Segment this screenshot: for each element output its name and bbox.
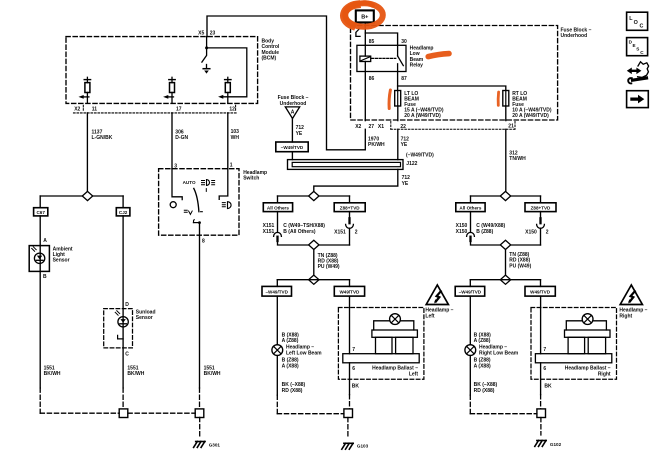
connector X2 dotted row under BCM xyxy=(74,112,238,114)
wire -W49/TVD box to J122 xyxy=(291,152,293,160)
option box All Others (left col) xyxy=(263,203,292,212)
bulb labels below xyxy=(474,358,491,370)
svg-text:Z88+TVD: Z88+TVD xyxy=(340,205,360,210)
svg-text:O: O xyxy=(634,20,638,26)
svg-text:A: A xyxy=(291,109,295,115)
Body Control Module (BCM) dashed box xyxy=(66,37,258,104)
svg-text:23: 23 xyxy=(210,31,216,37)
svg-text:30: 30 xyxy=(401,39,407,45)
wire relay 87 to both low beam fuses xyxy=(398,72,506,91)
option box Z88+TVD (right col) xyxy=(525,203,556,212)
svg-text:–W49/TVD: –W49/TVD xyxy=(281,145,304,150)
svg-text:C: C xyxy=(640,50,644,55)
wire C67 down through ambient light sensor xyxy=(39,216,41,388)
ballast top bar (left) xyxy=(372,330,418,337)
option box W49/TVD (right ballast) xyxy=(525,286,555,296)
switch headlamp position icon xyxy=(222,202,231,209)
svg-text:6: 6 xyxy=(543,366,546,372)
headlamp ballast right dashed box xyxy=(531,308,617,380)
ground G103 xyxy=(342,443,353,449)
wire ballast 6 to ground BK (left) xyxy=(349,363,351,395)
svg-text:J122: J122 xyxy=(406,161,417,167)
svg-text:17: 17 xyxy=(176,107,182,113)
wire labels TN RD PU (left col) xyxy=(318,253,340,270)
svg-text:1: 1 xyxy=(230,162,233,168)
left headlamp splice diamond (bottom) xyxy=(309,275,319,284)
in-line connector square (switch gnd) xyxy=(195,409,204,418)
svg-text:–W49/TVD: –W49/TVD xyxy=(459,289,482,294)
ballast legs (right) xyxy=(568,337,585,353)
svg-text:Sensor: Sensor xyxy=(53,258,70,264)
connector X1 dotted bracket xyxy=(391,122,515,130)
option box All Others (right col) xyxy=(456,203,485,212)
wire to left low beam bulb xyxy=(276,296,278,345)
splice diamond on 1137 circuit xyxy=(40,195,123,197)
svg-text:86: 86 xyxy=(369,76,375,82)
BCM internal route to pin-12 driver xyxy=(207,48,247,97)
svg-text:Left Low Beam: Left Low Beam xyxy=(286,350,322,356)
wire 1970 PK/WH relay coil 86 to BCM X5/23 top route xyxy=(207,16,365,150)
node X5 pin 23 labels xyxy=(198,31,215,37)
wire 712 YE J122 output to left headlamp diamond xyxy=(314,169,398,191)
option box W49/TVD (left ballast) xyxy=(334,286,364,296)
wire bulb to ground label BK xyxy=(276,356,278,396)
svg-text:L-GN/BK: L-GN/BK xyxy=(92,135,113,141)
ballast legs (left) xyxy=(376,337,393,353)
in-line connector X150 (right wire) xyxy=(540,212,542,219)
svg-text:G102: G102 xyxy=(550,442,562,447)
bulb label xyxy=(479,345,519,357)
in-line connector square (sunload gnd) xyxy=(119,409,128,418)
wire 103 WH from BCM pin 12 to switch pin 1 xyxy=(227,113,229,169)
svg-text:2: 2 xyxy=(546,229,549,235)
svg-text:A (X88): A (X88) xyxy=(474,363,491,369)
sunload sensor photocell symbol xyxy=(118,317,128,327)
ballast top bar (right) xyxy=(565,330,611,337)
wire 306 D-GN from BCM pin 17 to switch pin 3 xyxy=(171,113,173,169)
fuse RT LO BEAM labels xyxy=(512,91,552,119)
bulb labels above xyxy=(282,333,300,345)
svg-text:S: S xyxy=(636,47,639,52)
relay pin labels 85 30 86 87 xyxy=(369,39,407,82)
wire B+ feed into fuse block xyxy=(364,22,366,45)
svg-text:85: 85 xyxy=(369,39,375,45)
BCM internal switch to ground xyxy=(202,37,210,69)
icon box DESC xyxy=(627,38,648,56)
svg-text:YE: YE xyxy=(402,181,409,187)
sunload sensor dashed box xyxy=(104,309,133,348)
dashed wire bulb ground to G103 xyxy=(277,395,344,414)
svg-text:D-GN: D-GN xyxy=(175,135,188,141)
svg-text:X150: X150 xyxy=(525,229,537,235)
svg-text:7: 7 xyxy=(352,347,355,353)
left headlamp splice diamond (top) xyxy=(278,195,350,197)
svg-text:X2: X2 xyxy=(355,124,361,130)
relay contact xyxy=(398,45,404,71)
in-line connector X150 (left wire) xyxy=(470,212,472,233)
in-line connector square (left headlamp gnd) xyxy=(344,409,353,418)
svg-text:BK: BK xyxy=(544,384,552,390)
svg-text:Left: Left xyxy=(425,313,435,319)
svg-text:8: 8 xyxy=(202,238,205,244)
svg-text:B: B xyxy=(43,274,47,280)
svg-text:All Others: All Others xyxy=(459,205,481,210)
svg-text:7: 7 xyxy=(543,347,546,353)
power feed triangle A xyxy=(285,107,299,119)
svg-text:27: 27 xyxy=(369,124,375,130)
svg-text:(BCM): (BCM) xyxy=(262,55,277,61)
switch pin 1 contact post xyxy=(219,169,228,200)
warning triangle (left headlamp) xyxy=(426,285,448,305)
relay coil-contact dashed link xyxy=(372,57,396,59)
icon diagnostic arrows and wrench xyxy=(638,62,649,78)
svg-text:WH: WH xyxy=(231,135,240,141)
icon box LOC xyxy=(627,12,648,30)
switch lever xyxy=(194,188,199,211)
svg-text:C: C xyxy=(125,352,129,358)
svg-text:PU (W49): PU (W49) xyxy=(509,263,531,269)
svg-text:PK/WH: PK/WH xyxy=(368,142,385,148)
svg-text:D: D xyxy=(125,302,129,308)
svg-text:YE: YE xyxy=(296,131,303,137)
svg-text:Relay: Relay xyxy=(410,62,424,68)
svg-text:C: C xyxy=(640,24,644,30)
svg-text:–W49/TVD: –W49/TVD xyxy=(265,289,288,294)
in-line connector X151 (left wire) xyxy=(277,212,279,233)
headlamp switch label xyxy=(243,170,267,182)
orange highlighter mark on RT LO BEAM fuse xyxy=(497,92,500,105)
BCM output driver pin 12 xyxy=(225,77,231,103)
ambient light sensor box xyxy=(29,246,49,272)
switch park-lamp icon xyxy=(184,210,192,214)
svg-text:20 A (W49/TVD): 20 A (W49/TVD) xyxy=(404,113,441,119)
svg-text:CJ2: CJ2 xyxy=(119,210,128,215)
ballast igniter bulb (right) xyxy=(582,314,593,325)
BCM label xyxy=(262,39,280,62)
wire 712 YE fuse X1/22 down to J122 xyxy=(397,106,399,160)
ambient light sensor label xyxy=(53,246,73,263)
wire label 1551 BK/WH (middle) xyxy=(127,365,144,377)
bulb labels above xyxy=(474,333,492,345)
wire ballast 6 to ground BK (right) xyxy=(540,363,542,395)
svg-text:12: 12 xyxy=(229,107,235,113)
sunload sensor label xyxy=(136,310,156,322)
ballast bulb leads (left) xyxy=(374,321,414,330)
connector CJ2 xyxy=(116,208,130,216)
svg-text:Underhood: Underhood xyxy=(561,33,588,39)
svg-text:X1: X1 xyxy=(378,124,384,130)
svg-text:AUTO: AUTO xyxy=(183,180,196,185)
svg-text:B (All Others): B (All Others) xyxy=(283,229,316,235)
switch AUTO position contact circle xyxy=(170,202,176,208)
bulb Right Low Beam xyxy=(465,345,476,356)
right headlamp splice diamond (top) xyxy=(471,195,541,197)
wire labels TN RD PU (right col) xyxy=(509,252,531,269)
svg-text:A (X88): A (X88) xyxy=(282,363,299,369)
svg-text:B+: B+ xyxy=(361,15,368,21)
svg-text:PU (W49): PU (W49) xyxy=(318,264,340,270)
orange highlighter circle around B+ xyxy=(345,3,383,27)
svg-text:B (Z88): B (Z88) xyxy=(476,229,493,235)
svg-text:X2: X2 xyxy=(74,107,80,113)
switch pin 3 contact post xyxy=(172,169,182,200)
battery node B+ xyxy=(356,10,374,22)
option box -W49/TVD (left bulb) xyxy=(262,286,292,296)
ballast bulb leads (right) xyxy=(566,321,606,330)
wire 1137 L-GN/BK from BCM pin 11 xyxy=(86,113,88,192)
wire to right low beam bulb xyxy=(469,296,471,345)
orange highlighter swoosh on relay label xyxy=(428,54,449,57)
connector labels X151 row xyxy=(263,223,358,235)
wire W49/TVD into left ballast xyxy=(349,296,351,354)
relay Headlamp Low Beam Relay box xyxy=(357,45,406,71)
fuse block underhood label (left feed) xyxy=(278,95,309,107)
svg-text:2: 2 xyxy=(355,229,358,235)
fuse LT LO BEAM labels xyxy=(404,91,444,119)
svg-text:X151: X151 xyxy=(334,229,346,235)
right headlamp splice diamond (mid) xyxy=(500,240,510,249)
svg-text:W49/TVD: W49/TVD xyxy=(339,289,360,294)
fuse block underhood dashed box xyxy=(351,26,558,121)
svg-text:A (Z88): A (Z88) xyxy=(474,338,491,344)
svg-text:A: A xyxy=(43,238,47,244)
svg-text:C67: C67 xyxy=(36,210,45,215)
svg-text:G301: G301 xyxy=(209,442,221,447)
wire 312 TN/WH fuse 21 down to right diamond xyxy=(505,106,507,192)
fuse LT LO BEAM xyxy=(395,91,401,107)
ground G301 xyxy=(194,442,205,448)
ballast igniter bulb (left) xyxy=(390,314,401,325)
switch output pivot xyxy=(193,222,199,224)
sunload sensor internal contact tick xyxy=(118,335,124,339)
svg-text:X150: X150 xyxy=(456,229,468,235)
orange highlighter mark on LT LO BEAM fuse xyxy=(389,90,390,109)
headlamp ballast left dashed box xyxy=(338,308,424,380)
warning triangle (right headlamp) xyxy=(620,285,642,305)
wire drops to C67 and CJ2 xyxy=(40,196,123,208)
relay label xyxy=(410,46,434,69)
icon box forward arrow xyxy=(627,91,649,108)
wire 712 YE triangle to -W49/TVD box xyxy=(291,119,293,143)
svg-text:BK: BK xyxy=(352,384,360,390)
wire CJ2 down through sunload sensor xyxy=(122,216,124,388)
svg-text:BK/WH: BK/WH xyxy=(127,371,144,377)
left headlamp splice diamond (mid) xyxy=(309,240,319,249)
connector labels X150 row xyxy=(456,223,549,235)
svg-text:Switch: Switch xyxy=(243,175,259,181)
X2 pin labels 11 17 12 xyxy=(74,107,235,113)
connector X1 pin 22 labels xyxy=(378,124,514,131)
ballast base bar (left) xyxy=(343,354,419,363)
svg-text:87: 87 xyxy=(401,76,407,82)
svg-text:G103: G103 xyxy=(357,444,369,449)
svg-text:RD (X88): RD (X88) xyxy=(474,388,495,394)
svg-text:11: 11 xyxy=(92,107,98,113)
wire switch pin 8 output xyxy=(199,223,201,388)
connector X2 pin 27 labels xyxy=(355,124,374,130)
svg-text:YE: YE xyxy=(401,142,408,148)
dashed wire bulb ground to G102 xyxy=(470,395,537,414)
ground G102 xyxy=(535,441,546,447)
ballast base bar (right) xyxy=(535,354,611,363)
fuse block underhood label (right) xyxy=(561,27,592,39)
wire label 1970 PK/WH xyxy=(368,136,385,148)
svg-text:All Others: All Others xyxy=(267,205,289,210)
svg-text:RD (X88): RD (X88) xyxy=(282,388,303,394)
svg-text:Right Low Beam: Right Low Beam xyxy=(479,350,519,356)
wire label 1551 BK/WH (left) xyxy=(44,365,61,377)
option box Z88+TVD (left col) xyxy=(334,203,365,212)
option box -W49/TVD (right bulb) xyxy=(455,286,485,296)
ballast label (right) xyxy=(565,366,611,378)
svg-text:(–W49/TVD): (–W49/TVD) xyxy=(406,152,434,158)
wire W49/TVD into right ballast xyxy=(540,296,542,354)
bulb label xyxy=(286,345,322,357)
splice pack J122 outer box xyxy=(288,160,404,170)
svg-text:20 A (W49/TVD): 20 A (W49/TVD) xyxy=(512,113,549,119)
svg-text:Right: Right xyxy=(619,313,632,319)
svg-text:W49/TVD: W49/TVD xyxy=(530,289,551,294)
fuse RT LO BEAM xyxy=(503,91,509,107)
option box -W49/TVD (left feed) xyxy=(276,142,308,152)
wire bulb to ground label BK xyxy=(469,356,471,396)
svg-text:X151: X151 xyxy=(263,229,275,235)
splice pack J122 inner bar xyxy=(292,162,400,166)
connector C67 xyxy=(34,208,48,216)
svg-text:E: E xyxy=(633,43,636,48)
BCM output driver pin 11 xyxy=(83,77,91,103)
svg-text:Underhood: Underhood xyxy=(280,101,307,107)
ballast label (left) xyxy=(372,366,418,378)
svg-text:BK/WH: BK/WH xyxy=(204,371,221,377)
relay coil xyxy=(364,45,366,56)
bulb labels below xyxy=(282,358,299,370)
in-line connector square (right headlamp gnd) xyxy=(537,409,546,418)
svg-text:Sensor: Sensor xyxy=(136,315,153,321)
svg-text:6: 6 xyxy=(352,366,355,372)
svg-text:Left: Left xyxy=(409,371,419,377)
headlamp switch dashed box xyxy=(159,169,239,236)
svg-text:A (Z88): A (Z88) xyxy=(282,338,299,344)
BCM output driver pin 17 xyxy=(167,77,175,103)
dashed ground wires to G301 xyxy=(40,388,200,437)
wire branch B+ to relay pin 30 xyxy=(365,33,397,45)
svg-text:TN/WH: TN/WH xyxy=(509,156,526,162)
ambient light sensor photocell symbol xyxy=(34,253,44,263)
svg-text:BK/WH: BK/WH xyxy=(44,371,61,377)
right headlamp splice diamond (bottom) xyxy=(500,275,510,284)
svg-text:Right: Right xyxy=(598,371,611,377)
in-line connector X151 (right wire) xyxy=(349,212,351,219)
wire label 1551 BK/WH (right) xyxy=(204,365,221,377)
bulb Left Low Beam xyxy=(272,345,283,356)
svg-text:X5: X5 xyxy=(198,31,204,37)
fusible link break symbol xyxy=(357,29,360,32)
svg-text:Z88+TVD: Z88+TVD xyxy=(531,205,551,210)
